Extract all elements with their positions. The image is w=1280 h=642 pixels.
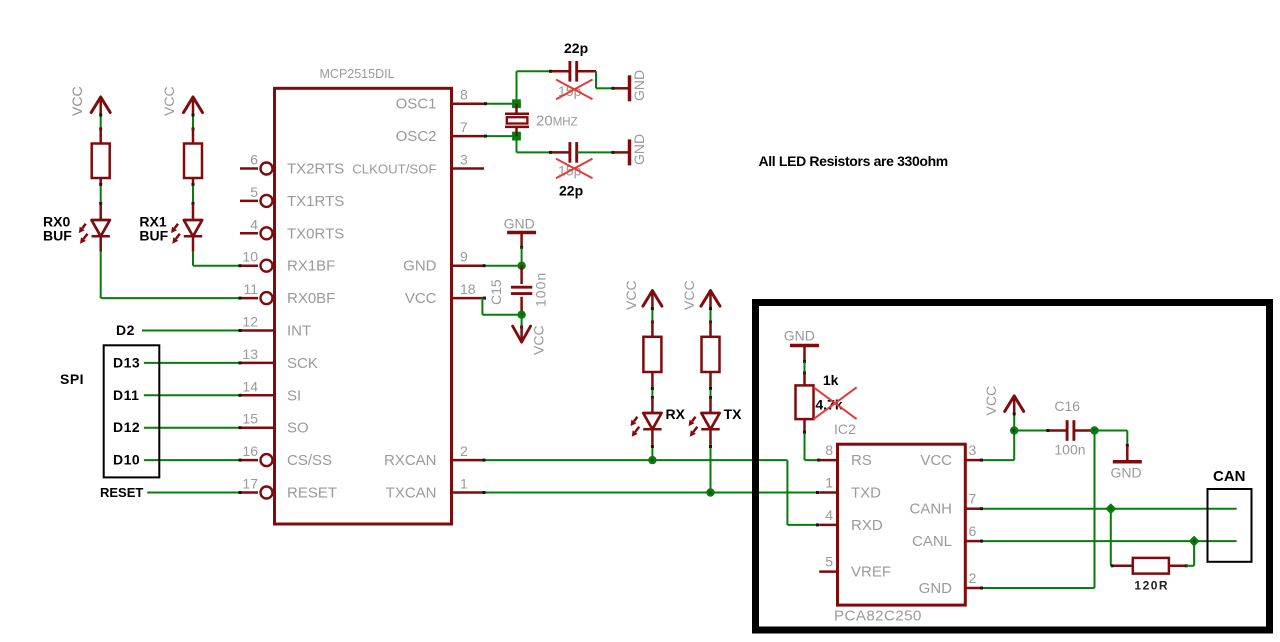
svg-text:GND: GND [1111,465,1142,481]
svg-text:CLKOUT/SOF: CLKOUT/SOF [352,162,436,177]
svg-text:PCA82C250: PCA82C250 [834,608,922,625]
svg-text:13: 13 [242,346,258,362]
svg-text:1k: 1k [823,372,839,388]
svg-text:TXD: TXD [851,485,881,502]
svg-text:1: 1 [825,475,833,491]
svg-text:RX1BF: RX1BF [287,258,335,275]
svg-text:22p: 22p [564,40,588,56]
svg-text:SI: SI [287,387,301,404]
svg-text:VCC: VCC [531,325,547,355]
svg-text:VCC: VCC [405,290,437,307]
svg-text:TX0RTS: TX0RTS [287,225,344,242]
svg-text:RS: RS [851,452,872,469]
svg-text:D2: D2 [116,322,135,338]
svg-text:5: 5 [825,554,833,570]
svg-text:GND: GND [784,328,815,344]
svg-text:17: 17 [242,476,258,492]
svg-text:GND: GND [919,580,953,597]
svg-text:RX0BF: RX0BF [287,290,335,307]
svg-text:8: 8 [825,442,833,458]
svg-text:RESET: RESET [100,485,143,500]
svg-text:D11: D11 [113,387,139,403]
svg-text:7: 7 [460,119,468,135]
svg-text:2: 2 [460,443,468,459]
svg-text:INT: INT [287,323,311,340]
svg-text:22p: 22p [559,183,583,199]
svg-text:15: 15 [242,411,258,427]
svg-text:VCC: VCC [623,280,639,310]
svg-text:BUF: BUF [139,228,168,244]
svg-text:3: 3 [460,152,468,168]
svg-text:SO: SO [287,420,309,437]
svg-text:RXCAN: RXCAN [384,452,437,469]
svg-text:GND: GND [504,216,535,232]
svg-text:GND: GND [631,134,647,165]
svg-text:RXD: RXD [851,517,883,534]
svg-text:SPI: SPI [60,371,84,387]
svg-text:18: 18 [460,281,476,297]
svg-text:14: 14 [242,378,258,394]
svg-text:TX2RTS: TX2RTS [287,161,344,178]
svg-text:SCK: SCK [287,355,318,372]
svg-text:GND: GND [631,70,647,101]
svg-text:1: 1 [460,476,468,492]
svg-text:100n: 100n [1054,442,1085,458]
svg-text:12: 12 [242,314,258,330]
svg-text:TXCAN: TXCAN [386,485,437,502]
svg-text:VCC: VCC [161,86,177,116]
svg-text:RX: RX [666,406,686,422]
svg-text:CANH: CANH [909,501,952,518]
svg-text:4: 4 [250,216,258,232]
svg-text:3: 3 [969,442,977,458]
svg-text:D12: D12 [113,419,140,435]
svg-text:TX: TX [724,406,743,422]
svg-text:4: 4 [825,507,833,523]
svg-text:16: 16 [242,443,258,459]
svg-text:OSC1: OSC1 [396,96,437,113]
svg-text:IC2: IC2 [834,421,856,437]
svg-text:MCP2515DIL: MCP2515DIL [320,67,395,81]
svg-text:CANL: CANL [912,533,952,550]
svg-text:100n: 100n [533,272,549,307]
svg-text:2: 2 [969,570,977,586]
svg-text:VCC: VCC [69,86,85,116]
svg-text:9: 9 [460,249,468,265]
svg-text:7: 7 [969,491,977,507]
svg-text:VCC: VCC [983,386,999,416]
svg-text:6: 6 [250,152,258,168]
svg-text:CS/SS: CS/SS [287,452,332,469]
svg-text:6: 6 [969,523,977,539]
svg-text:8: 8 [460,87,468,103]
svg-text:VCC: VCC [681,280,697,310]
svg-text:OSC2: OSC2 [396,128,437,145]
svg-text:10: 10 [242,249,258,265]
svg-text:D10: D10 [113,452,140,468]
svg-text:All LED Resistors are 330ohm: All LED Resistors are 330ohm [759,153,948,169]
svg-text:RESET: RESET [287,485,337,502]
svg-text:GND: GND [403,258,437,275]
svg-text:VREF: VREF [851,564,891,581]
svg-text:C16: C16 [1054,398,1080,414]
svg-text:11: 11 [243,281,258,297]
svg-text:5: 5 [250,184,258,200]
svg-text:D13: D13 [113,354,140,370]
svg-text:BUF: BUF [43,228,72,244]
svg-text:VCC: VCC [920,452,952,469]
svg-text:TX1RTS: TX1RTS [287,193,344,210]
svg-text:C15: C15 [488,279,504,305]
svg-text:CAN: CAN [1213,468,1246,485]
svg-text:120R: 120R [1134,579,1169,593]
